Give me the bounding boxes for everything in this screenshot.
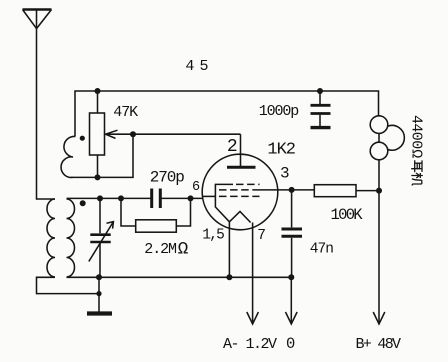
svg-text:1,5: 1,5: [202, 228, 224, 244]
svg-text:6: 6: [192, 180, 200, 195]
ground 1000p: [311, 126, 331, 129]
node junction wiper: [130, 131, 136, 137]
svg-text:B+ 48V: B+ 48V: [356, 336, 402, 353]
svg-text:4: 4: [185, 58, 194, 75]
svg-text:3: 3: [280, 164, 290, 182]
node junction C-var top: [97, 195, 103, 201]
antenna: [23, 10, 52, 29]
node junction 47n bottom: [288, 274, 294, 280]
tube grid rows: [219, 184, 260, 196]
resistor R 2.2M (grid leak): [121, 198, 191, 232]
wire bottom bus: [37, 277, 100, 293]
svg-text:270p: 270p: [150, 168, 185, 186]
node junction bottom left: [96, 274, 102, 280]
capacitor C-var (tuning, variable): [89, 198, 114, 277]
svg-text:0: 0: [286, 335, 295, 353]
tube grid-1 lead structure: [203, 195, 216, 197]
wire pin 3 screen lead: [260, 189, 315, 191]
label 4400 ohm headphones (vertical): [408, 115, 425, 186]
resistor R 100K: [314, 185, 379, 197]
node polarity dot T1 secondary: [80, 200, 86, 206]
wire wiper to plate: [133, 133, 241, 135]
svg-text:100K: 100K: [331, 206, 364, 224]
tube filament: [229, 212, 250, 223]
svg-text:1000p: 1000p: [259, 103, 299, 120]
svg-text:A- 1.2V: A- 1.2V: [223, 336, 277, 353]
node junction B+ / phones: [376, 188, 382, 194]
transformer T1 secondary (tuned) winding: [67, 199, 75, 277]
capacitor C 270p (grid cap): [152, 189, 161, 209]
node junction R-grid left: [118, 195, 124, 201]
node junction pot bottom: [95, 174, 101, 180]
capacitor C 1000p (bypass): [311, 91, 331, 126]
node polarity dot tickler: [80, 136, 85, 141]
inductor L-feedback (tickler coil): [61, 136, 75, 177]
capacitor C 47n: [282, 190, 303, 277]
wire pin 7 lead to A-: [252, 223, 254, 325]
tube V1 1K2 envelope: [202, 154, 278, 230]
node junction pot top: [95, 88, 101, 94]
transformer T1 primary (antenna) winding: [47, 199, 55, 277]
node junction 1000p top: [317, 88, 323, 94]
svg-text:1K2: 1K2: [267, 141, 295, 160]
wire wiper down to pot bottom: [71, 134, 133, 177]
svg-text:4400: 4400: [408, 115, 425, 149]
svg-text:47n: 47n: [310, 242, 333, 258]
ground: [87, 311, 112, 315]
headphones 4400 ohm: [370, 116, 404, 191]
wire B+ arrow: [378, 191, 380, 324]
wire antenna down-lead: [37, 10, 56, 200]
svg-text:47K: 47K: [113, 104, 138, 121]
svg-text:5: 5: [200, 58, 209, 75]
node junction screen/47n: [289, 187, 295, 193]
node junction grid right: [188, 195, 194, 201]
svg-text:Ω: Ω: [178, 240, 189, 260]
svg-text:7: 7: [257, 228, 266, 244]
potentiometer 47K: [90, 91, 134, 177]
wire grid bus (secondary top to tube grid): [67, 197, 152, 199]
tube plate (anode): [227, 166, 256, 169]
svg-text:2.2M: 2.2M: [144, 241, 177, 258]
wire plate lead: [240, 134, 242, 167]
svg-text:2: 2: [227, 137, 238, 157]
wire plate supply top bus: [75, 91, 379, 136]
node junction pin1,5 bottom: [226, 274, 232, 280]
svg-text:Ω: Ω: [408, 149, 425, 158]
wire 0V arrow: [290, 277, 292, 324]
wire pin 1,5 lead: [228, 222, 230, 277]
